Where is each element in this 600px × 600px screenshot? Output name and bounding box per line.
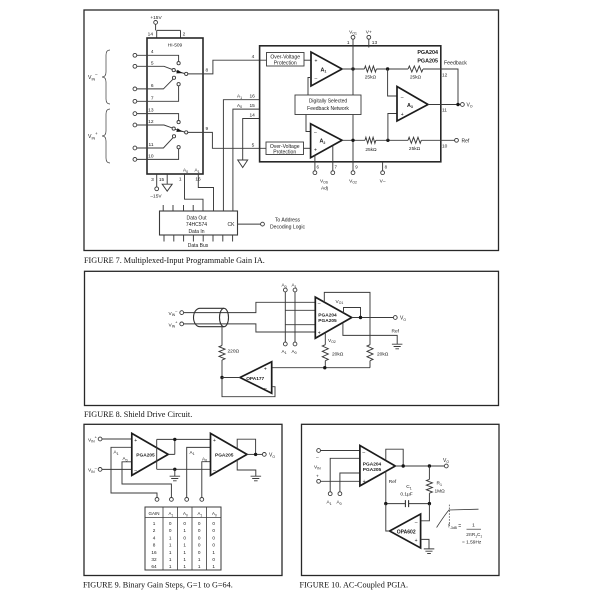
svg-text:Protection: Protection	[274, 61, 297, 67]
svg-text:11: 11	[149, 142, 154, 148]
shielded cable	[194, 308, 225, 326]
svg-text:0.1µF: 0.1µF	[400, 491, 412, 497]
amp2 feedback loop	[237, 439, 255, 454]
svg-text:1: 1	[198, 564, 201, 569]
address line A0 to PGA pin 15	[233, 109, 260, 211]
wire pin 7 to switch contact	[137, 86, 179, 101]
svg-text:Ref: Ref	[392, 328, 400, 334]
svg-text:2: 2	[183, 31, 186, 37]
control terminal A0 (bottom)	[293, 342, 297, 346]
svg-text:OPA177: OPA177	[246, 376, 264, 382]
svg-text:–: –	[134, 468, 137, 474]
svg-text:220Ω: 220Ω	[228, 349, 240, 355]
svg-text:+: +	[264, 366, 267, 372]
wire V_O1 pin to A1 output node and feedback network	[352, 39, 354, 95]
V+ pin stub	[368, 39, 370, 47]
svg-text:Ref: Ref	[462, 138, 470, 144]
feedback wire pin 12 to output node	[423, 69, 458, 105]
svg-text:+: +	[134, 438, 137, 444]
figure 7 frame	[84, 10, 499, 251]
gain control terminal 3 (A1)	[185, 498, 189, 502]
node feedback junction	[402, 464, 405, 467]
svg-text:+: +	[401, 112, 404, 118]
svg-text:Protection: Protection	[273, 150, 296, 156]
svg-text:4: 4	[153, 535, 156, 540]
svg-text:1: 1	[169, 543, 172, 548]
amp2 output wire	[247, 453, 262, 455]
non-inverting input terminal	[317, 479, 321, 483]
svg-text:+: +	[314, 148, 317, 154]
V- pin 8 stub	[382, 162, 384, 171]
svg-text:1: 1	[169, 557, 172, 562]
svg-text:4: 4	[252, 54, 255, 60]
wire non-inverting input	[321, 480, 360, 482]
svg-text:4: 4	[151, 49, 154, 55]
svg-text:+: +	[363, 479, 366, 485]
A0 control terminal and wire	[338, 492, 342, 496]
node amp1 output to feedback	[173, 438, 176, 441]
svg-text:Feedback: Feedback	[444, 61, 467, 67]
svg-text:0: 0	[198, 535, 201, 540]
svg-text:FIGURE 7. Multiplexed-Input Pr: FIGURE 7. Multiplexed-Input Programmable…	[84, 256, 265, 265]
wire feedback network to A2 inverting input	[306, 115, 311, 132]
amp1 output wire	[168, 439, 175, 454]
node amp2 output	[254, 453, 257, 456]
V_O1 feedback stub to 20k divider	[324, 292, 370, 344]
svg-text:–: –	[362, 449, 365, 455]
svg-text:Data In: Data In	[188, 229, 204, 235]
svg-text:1: 1	[212, 550, 215, 555]
op-amp A2	[311, 124, 342, 158]
pin 8 output wire to over-voltage protection 1	[188, 60, 267, 74]
wire +15V to HI-509 pins 14 and 2	[156, 24, 181, 38]
svg-text:Data Out: Data Out	[186, 215, 207, 221]
+15V supply terminal	[154, 21, 158, 25]
wire feedback network to V_O2 node	[352, 115, 354, 171]
wire pin 11 to switch contact	[137, 138, 173, 148]
svg-text:1: 1	[183, 557, 186, 562]
svg-text:11: 11	[442, 108, 447, 114]
summing node top	[386, 67, 389, 70]
wire pin 5 to switch contact	[137, 66, 172, 69]
svg-text:3: 3	[151, 177, 154, 183]
common output contact (pin 9)	[185, 131, 188, 134]
wire inverting input	[321, 450, 360, 452]
inverting input terminal	[317, 449, 321, 453]
svg-text:2: 2	[153, 528, 156, 533]
svg-text:+: +	[315, 58, 318, 64]
V_O terminal	[444, 464, 448, 468]
-15V terminal	[155, 187, 159, 191]
wire pin 13 to switch contact	[137, 114, 179, 121]
svg-text:PGA205: PGA205	[215, 452, 234, 458]
common output contact (pin 8)	[185, 72, 188, 75]
data bus stubs below 74HC574	[164, 235, 233, 242]
svg-text:–: –	[316, 456, 319, 461]
svg-text:+: +	[318, 331, 321, 337]
svg-text:0: 0	[183, 521, 186, 526]
svg-text:+: +	[415, 538, 418, 544]
output wire to V_O	[395, 465, 444, 467]
V_OS adj pin 7 stub	[332, 146, 334, 171]
figure 10 frame	[302, 424, 500, 575]
svg-text:9: 9	[206, 126, 209, 132]
svg-text:1: 1	[153, 521, 156, 526]
digital ground wire to PGA pin 14	[243, 119, 260, 161]
wire to summing node	[376, 68, 408, 70]
svg-text:Digitally Selected: Digitally Selected	[309, 99, 348, 105]
output wire to V_O terminal	[352, 317, 394, 319]
svg-text:0: 0	[212, 543, 215, 548]
svg-text:20kΩ: 20kΩ	[332, 351, 344, 357]
wire OPA177 output to shield node	[222, 377, 240, 379]
svg-text:1: 1	[169, 564, 172, 569]
output node junction	[359, 316, 362, 319]
capacitor C1 0.1uF	[386, 503, 430, 505]
svg-text:0: 0	[212, 521, 215, 526]
amplifier 2 PGA205	[211, 433, 248, 475]
switch contact pin 4	[177, 62, 180, 65]
resistor 25k (to feedback pin)	[408, 66, 423, 72]
gain table	[145, 507, 221, 570]
svg-text:16: 16	[195, 177, 201, 183]
first amp A1 control line	[111, 447, 157, 497]
V_IN+ terminal	[98, 437, 102, 441]
input terminal pin 4	[133, 53, 137, 57]
svg-text:PGA205: PGA205	[417, 59, 438, 65]
svg-text:HI-509: HI-509	[168, 43, 183, 49]
multiplexer U1 HI-509 box	[147, 38, 203, 174]
input terminal pin 6	[133, 87, 137, 91]
input terminal pin 10	[133, 158, 137, 162]
svg-text:–: –	[264, 385, 267, 391]
gain control terminal 1 (A1)	[155, 498, 159, 502]
Ref pin wire down to cap node	[385, 471, 387, 503]
V+ pin 13 terminal	[367, 35, 371, 39]
svg-text:FIGURE 10. AC-Coupled PGIA.: FIGURE 10. AC-Coupled PGIA.	[300, 581, 409, 590]
amplifier 1 PGA205	[132, 433, 168, 475]
node R1 top junction	[428, 464, 431, 467]
switch contact pin 5 (selected)	[172, 69, 175, 72]
svg-text:6: 6	[151, 83, 154, 89]
svg-text:1: 1	[183, 550, 186, 555]
svg-text:PGA204: PGA204	[417, 50, 438, 56]
V_O1 pin 1 terminal	[351, 35, 355, 39]
svg-text:Ref: Ref	[389, 479, 397, 485]
input terminal pin 5	[133, 64, 137, 68]
svg-text:PGA205: PGA205	[318, 318, 337, 324]
svg-text:16: 16	[250, 94, 256, 100]
svg-text:16: 16	[151, 550, 157, 555]
svg-text:25kΩ: 25kΩ	[365, 75, 377, 81]
wire 220 ohm to OPA177 output node	[221, 360, 223, 378]
svg-text:–: –	[318, 301, 321, 307]
svg-text:1: 1	[212, 564, 215, 569]
wire pin 10 to switch contact	[137, 149, 179, 159]
wire node to A3 non-inverting input	[388, 114, 397, 141]
svg-text:0: 0	[198, 550, 201, 555]
svg-text:PGA205: PGA205	[136, 452, 155, 458]
svg-text:20kΩ: 20kΩ	[377, 351, 389, 357]
HI-509 pin 1 wire to 74HC574	[185, 174, 204, 211]
svg-text:0: 0	[169, 528, 172, 533]
switch wiper arm with arrowhead channel 2	[175, 129, 184, 132]
switch contact pin 11	[172, 135, 175, 138]
resistor 25k (A2 feedback)	[365, 137, 376, 143]
svg-text:13: 13	[372, 40, 378, 46]
control terminal A1 (bottom)	[283, 342, 287, 346]
switch contact pin 13	[177, 121, 180, 124]
svg-text:32: 32	[151, 557, 157, 562]
svg-text:+: +	[213, 438, 216, 444]
wire pin 4 to switch contact	[137, 55, 179, 61]
svg-text:Data Bus: Data Bus	[188, 243, 209, 249]
svg-text:1: 1	[179, 177, 182, 183]
svg-text:PGA204: PGA204	[318, 312, 337, 318]
wire pin 6 to switch contact	[137, 79, 173, 89]
figure 9 frame	[84, 424, 282, 575]
svg-text:12: 12	[442, 73, 448, 79]
svg-text:64: 64	[151, 564, 157, 569]
shield drive wire to 220 ohm resistor	[221, 327, 223, 346]
CK wire to address decoding terminal	[238, 223, 261, 225]
svg-text:Decoding Logic: Decoding Logic	[270, 225, 306, 231]
V_O2 stub to 20k divider	[324, 333, 326, 345]
control terminal A1 (top)	[293, 288, 297, 292]
resistor 25k (to ref pin)	[408, 137, 421, 143]
unconnected input stubs on top of 74HC574	[163, 205, 193, 211]
resistor 220 ohm	[219, 346, 225, 361]
digital ground arrow	[238, 160, 248, 168]
brace for V_IN+ input group	[102, 109, 110, 163]
svg-text:10: 10	[148, 153, 154, 159]
second amp A0 control line	[202, 462, 211, 498]
svg-text:1: 1	[169, 550, 172, 555]
HI-509 pin 3 stub to -15V	[156, 174, 158, 187]
svg-text:0: 0	[169, 521, 172, 526]
feedback network box	[295, 95, 361, 115]
svg-text:V+: V+	[366, 30, 372, 36]
wire pin 12 to switch contact	[137, 125, 172, 128]
gain select wire lower	[285, 324, 315, 326]
svg-text:13: 13	[148, 108, 154, 114]
ground amp1 ref	[174, 469, 176, 476]
resistor 20k right	[367, 345, 373, 361]
first amp A0 control line	[122, 462, 171, 498]
svg-text:14: 14	[148, 31, 154, 37]
HI-509 pin 15 stub to analog ground arrow	[166, 174, 168, 184]
svg-text:–: –	[315, 76, 318, 82]
svg-text:25kΩ: 25kΩ	[365, 147, 377, 153]
wire OVP1 to op-amp A1	[304, 59, 311, 61]
svg-text:0: 0	[183, 535, 186, 540]
V_O terminal	[262, 453, 266, 457]
svg-text:7: 7	[151, 95, 154, 101]
svg-text:0: 0	[198, 528, 201, 533]
A0 control line vertical	[284, 292, 286, 342]
A1 control terminal and wire	[328, 492, 332, 496]
svg-text:CK: CK	[228, 222, 236, 228]
node V_O1 junction	[351, 67, 354, 70]
switch contact pin 6	[172, 76, 175, 79]
OPA602 non-inverting input to ground	[421, 539, 429, 549]
divider bottom rail to OPA177 non-inverting input	[272, 361, 370, 368]
amplifier PGA204/PGA205 triangle	[315, 297, 351, 338]
op-amp A1	[311, 52, 342, 86]
switch contact pin 7	[177, 83, 180, 86]
V_OS adj pin 6 stub	[314, 155, 316, 170]
node OPA177 output junction	[220, 376, 223, 379]
node amp1 ref junction	[173, 468, 176, 471]
svg-text:5: 5	[151, 61, 154, 67]
A1 control line vertical	[294, 292, 296, 342]
brace for V_IN- input group	[102, 50, 110, 104]
svg-text:–: –	[401, 94, 404, 100]
node V_O2 junction	[351, 139, 354, 142]
switch contact pin 12 (selected)	[172, 127, 175, 130]
op-amp OPA602	[390, 514, 421, 548]
wire to summing node bottom	[376, 139, 408, 141]
resistor 20k left	[322, 345, 328, 361]
OPA177 feedback loop	[222, 378, 275, 397]
svg-text:1: 1	[183, 528, 186, 533]
wire A1 inverting input to feedback network	[308, 78, 311, 96]
svg-text:8: 8	[153, 543, 156, 548]
summing node bottom	[386, 139, 389, 142]
svg-text:FIGURE 9. Binary Gain Steps, G: FIGURE 9. Binary Gain Steps, G=1 to G=64…	[83, 581, 233, 590]
feedback pin jumper to output	[344, 308, 361, 318]
svg-text:0: 0	[198, 521, 201, 526]
svg-text:PGA204: PGA204	[363, 461, 382, 467]
amp1 feedback/ref loop	[157, 439, 211, 469]
gain control terminal 4 (A0)	[200, 498, 204, 502]
node cap right	[428, 502, 431, 505]
svg-text:5: 5	[252, 142, 255, 148]
input terminal pin 13	[133, 112, 137, 116]
output node (feedback junction)	[456, 103, 459, 106]
control terminal A0 (top)	[283, 288, 287, 292]
input terminal pin 12	[133, 123, 137, 127]
svg-text:0: 0	[212, 557, 215, 562]
frequency response curve	[437, 509, 479, 527]
feedback pin jumper to output	[386, 449, 403, 466]
wire V_IN- to PGA inverting input	[184, 302, 316, 312]
wire cap node to OPA602 inverting input	[421, 504, 430, 521]
svg-text:PGA205: PGA205	[363, 467, 382, 473]
svg-text:1: 1	[183, 543, 186, 548]
gain select wire upper	[285, 309, 315, 311]
svg-text:74HC574: 74HC574	[186, 222, 207, 228]
wire ref pin 10 to Ref terminal	[421, 139, 454, 141]
wire node to A3 inverting input	[388, 69, 397, 96]
wire OPA602 output to Ref node	[386, 504, 390, 531]
svg-text:25kΩ: 25kΩ	[410, 75, 422, 81]
V_O terminal	[393, 316, 397, 320]
resistor 25k (A1 feedback)	[364, 66, 376, 72]
svg-text:1: 1	[198, 557, 201, 562]
svg-text:1: 1	[347, 40, 350, 46]
over-voltage protection box 2	[266, 142, 304, 155]
figure 8 frame	[85, 271, 499, 405]
switch contact pin 10	[177, 146, 180, 149]
svg-text:12: 12	[148, 119, 154, 125]
address line A1 to PGA pin 16	[223, 100, 259, 211]
wire V_IN+ to first amp	[102, 438, 132, 440]
switch wiper arm with arrowhead channel 1	[175, 71, 184, 74]
svg-text:GAIN: GAIN	[148, 511, 159, 516]
svg-text:FIGURE 8. Shield Drive Circuit: FIGURE 8. Shield Drive Circuit.	[84, 410, 192, 419]
ground (Ref)	[392, 344, 403, 349]
Ref terminal	[455, 138, 459, 142]
input terminal pin 7	[133, 99, 137, 103]
wire A3 output to V_O terminal	[428, 104, 460, 106]
svg-text:0: 0	[198, 543, 201, 548]
V_IN- input terminal	[180, 311, 184, 315]
resistor R1 1M	[428, 466, 430, 479]
amplifier PGA204/PGA205 triangle	[360, 446, 395, 486]
svg-text:1: 1	[183, 564, 186, 569]
V_IN+ input terminal	[180, 322, 184, 326]
svg-text:8: 8	[206, 68, 209, 74]
over-voltage protection box 1	[267, 53, 305, 67]
node cap left (Ref)	[384, 502, 387, 505]
svg-text:+: +	[316, 474, 319, 479]
svg-text:Feedback Network: Feedback Network	[307, 106, 349, 112]
svg-text:15: 15	[250, 103, 256, 109]
wire A1 output to node	[342, 68, 364, 70]
svg-text:15: 15	[159, 177, 165, 183]
svg-text:+15V: +15V	[150, 15, 162, 21]
svg-text:0: 0	[212, 528, 215, 533]
svg-text:= 1.59Hz: = 1.59Hz	[462, 539, 482, 545]
svg-text:To Address: To Address	[275, 217, 301, 223]
svg-text:1: 1	[472, 522, 475, 528]
analog ground arrow	[162, 184, 172, 191]
amp2 ref to ground	[237, 460, 256, 476]
svg-text:1: 1	[169, 535, 172, 540]
pin 9 output wire to over-voltage protection 2	[188, 132, 266, 148]
Ref pin wire to ground	[343, 323, 397, 345]
svg-text:Adj: Adj	[321, 186, 328, 192]
node divider midpoint	[323, 366, 326, 369]
op-amp OPA177 buffer	[240, 362, 272, 394]
wire A2 output to node	[342, 139, 365, 141]
svg-text:10: 10	[442, 144, 448, 150]
wire V_IN+ to PGA non-inverting input	[184, 324, 316, 332]
svg-text:25kΩ: 25kΩ	[409, 146, 421, 152]
svg-text:OPA602: OPA602	[397, 529, 416, 535]
svg-text:–: –	[314, 130, 317, 136]
V_O terminal	[461, 103, 465, 107]
latch U2 74HC574 box	[160, 211, 238, 235]
HI-509 pin 16 wire to 74HC574	[198, 174, 213, 211]
svg-text:V–: V–	[380, 179, 386, 185]
wire V_IN- to first amp	[102, 468, 132, 470]
svg-text:–: –	[213, 468, 216, 474]
op-amp A3 output amplifier	[397, 87, 428, 122]
gain control terminal 2 (A0)	[170, 498, 174, 502]
second amp A1 control line	[187, 447, 211, 497]
amplifier U3 PGA204/PGA205 outer box	[260, 46, 441, 162]
V_IN- terminal	[98, 468, 102, 472]
svg-text:1MΩ: 1MΩ	[435, 488, 446, 494]
input terminal pin 11	[133, 146, 137, 150]
svg-text:–15V: –15V	[150, 194, 162, 200]
svg-text:14: 14	[250, 112, 256, 118]
svg-text:0: 0	[212, 535, 215, 540]
wire OVP2 to op-amp A2	[304, 147, 311, 149]
svg-text:–: –	[415, 519, 418, 525]
